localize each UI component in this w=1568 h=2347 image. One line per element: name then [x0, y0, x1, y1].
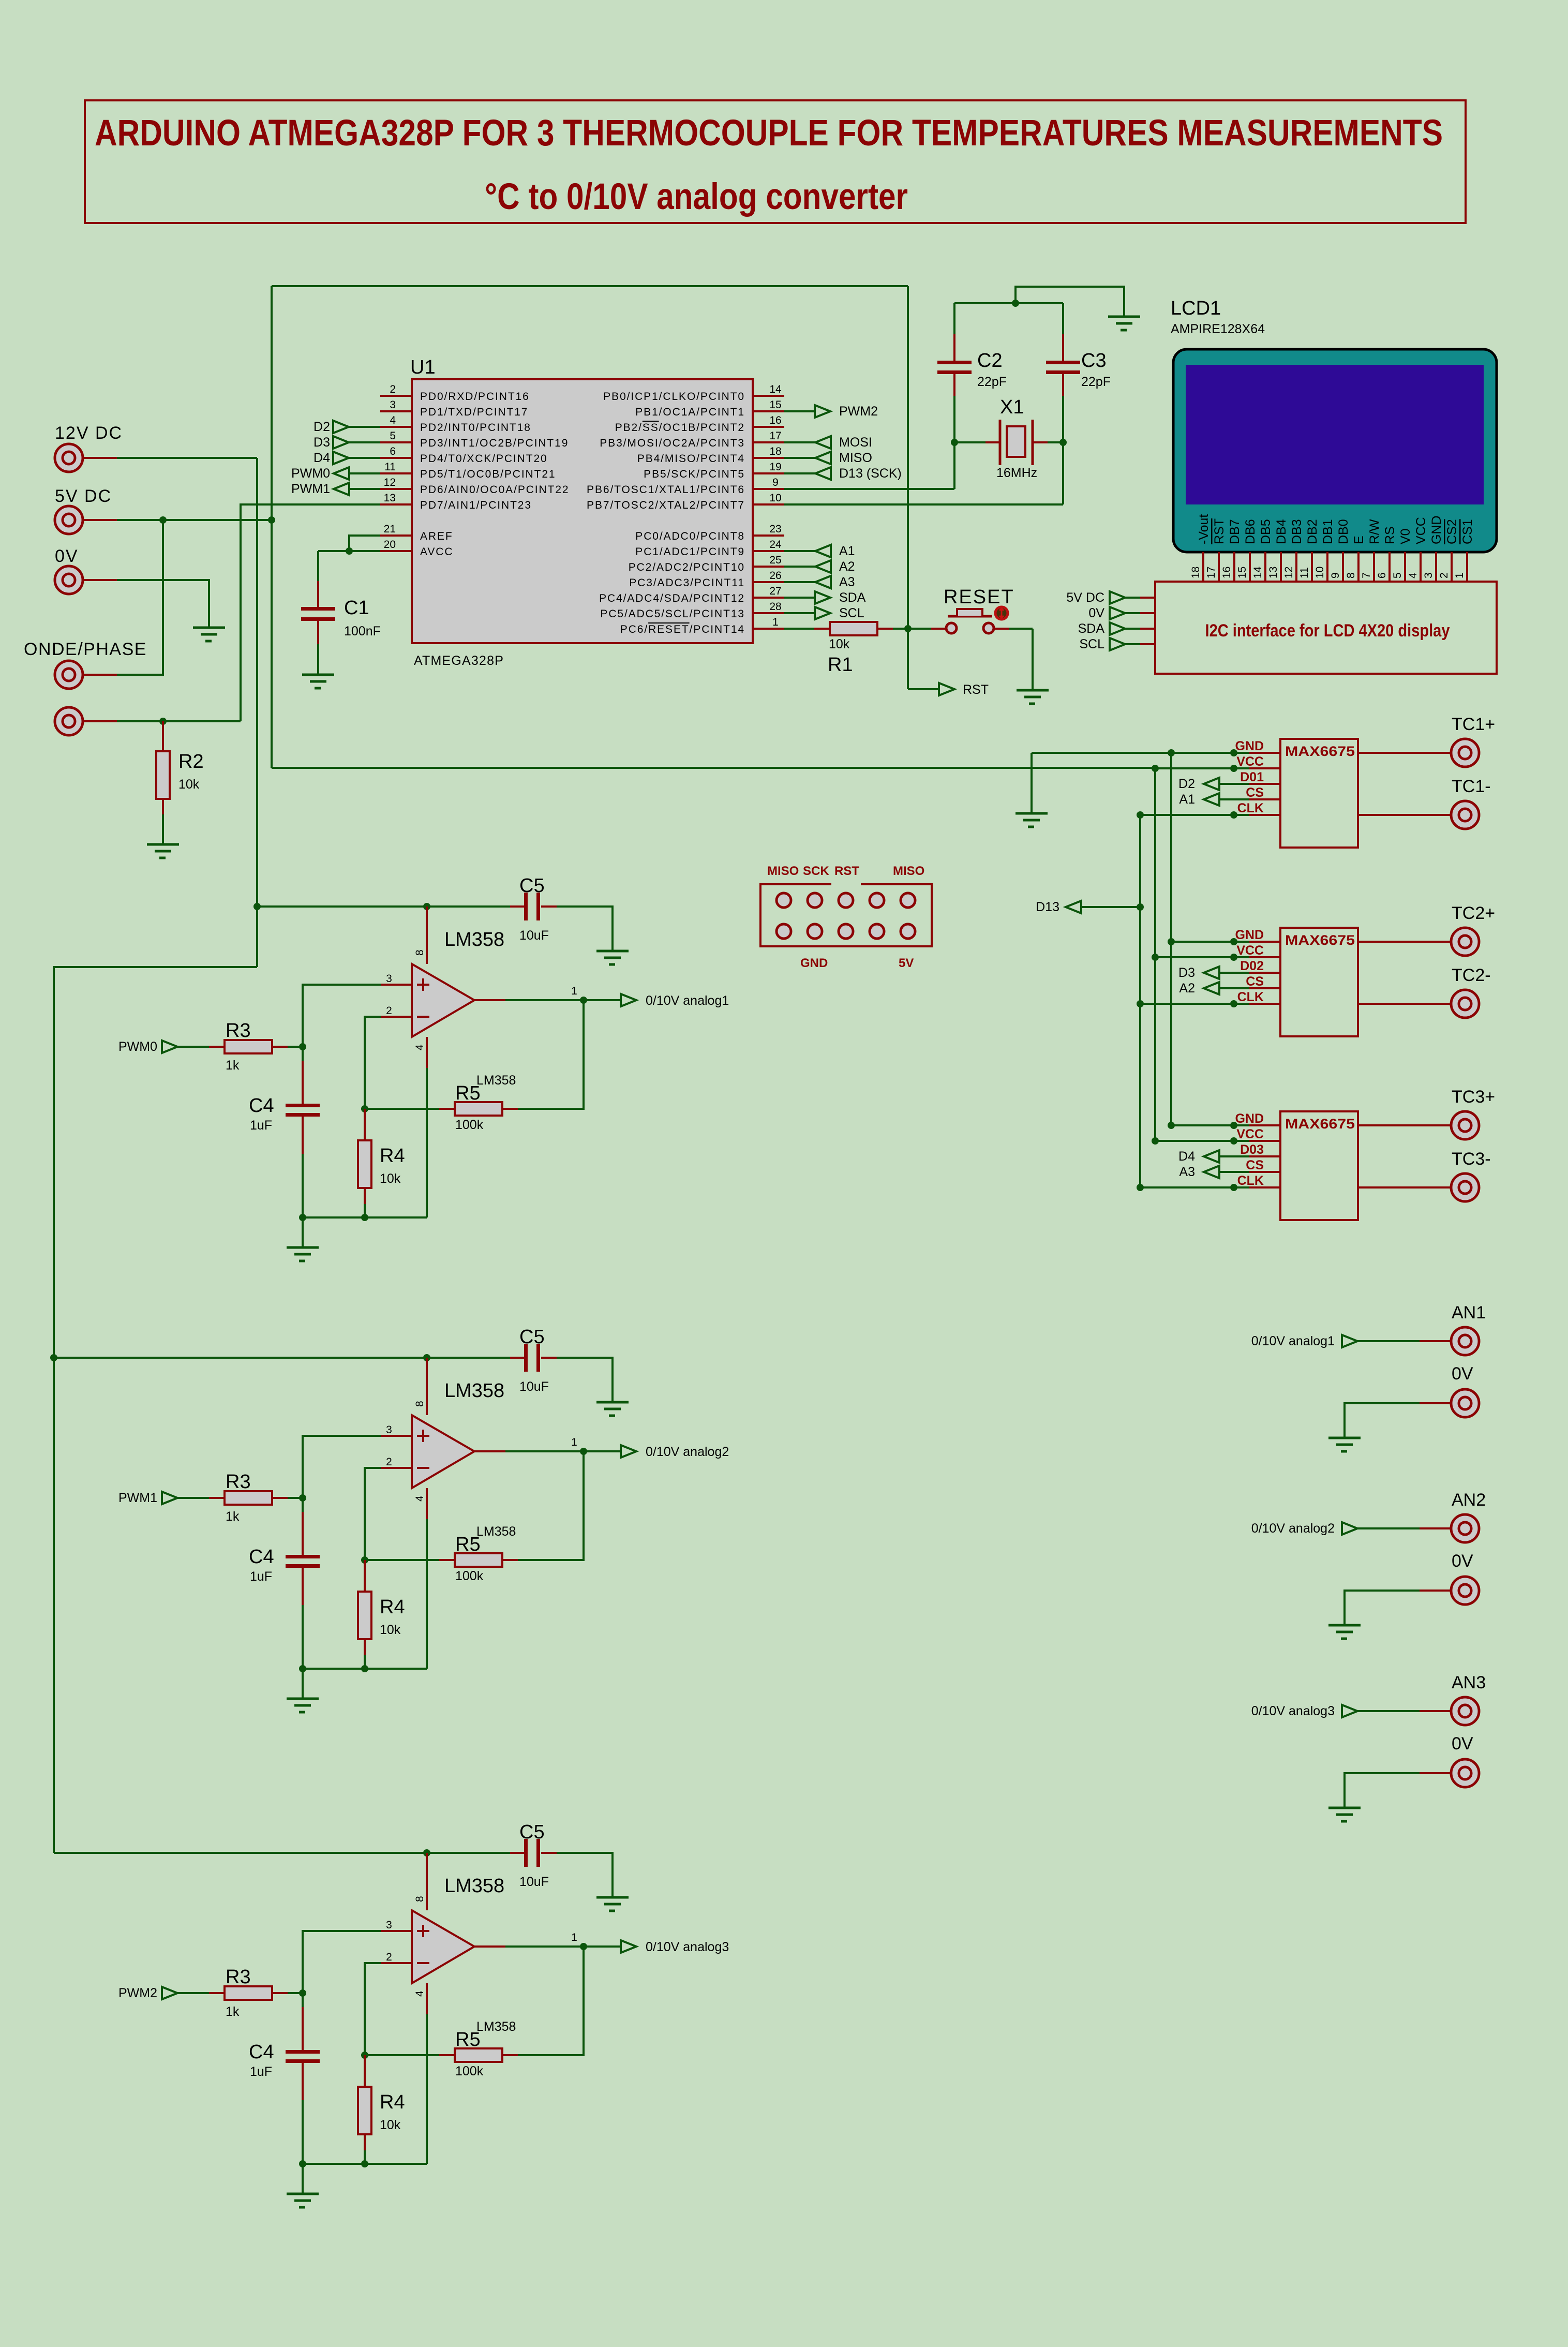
ground crystal [1108, 317, 1140, 330]
pin 17 PB3/MOSI/OC2A/PCINT3 [753, 441, 784, 443]
op-amp2 output wire [474, 1450, 505, 1452]
connector AN1 [1451, 1327, 1479, 1355]
svg-text:TC1+: TC1+ [1452, 715, 1495, 734]
svg-text:AN2: AN2 [1452, 1490, 1486, 1510]
svg-text:20: 20 [384, 539, 396, 551]
svg-text:10k: 10k [380, 1171, 401, 1186]
terminal D3 [1204, 967, 1219, 979]
svg-text:PWM2: PWM2 [839, 404, 878, 419]
svg-text:A3: A3 [1179, 1165, 1195, 1179]
wire VCC rail to MAX1 [1155, 767, 1249, 769]
LCD pin 3 GND [1435, 552, 1437, 582]
resistor R2 [162, 721, 164, 751]
MAX6675-2 pin VCC [1249, 956, 1280, 958]
svg-text:22pF: 22pF [1081, 375, 1111, 389]
svg-text:PC1/ADC1/PCINT9: PC1/ADC1/PCINT9 [635, 546, 745, 558]
svg-text:DB3: DB3 [1290, 519, 1304, 544]
svg-text:1uF: 1uF [250, 1118, 272, 1133]
svg-text:PWM1: PWM1 [291, 482, 330, 496]
svg-text:1uF: 1uF [250, 2064, 272, 2079]
pin 25 PC2/ADC2/PCINT10 [753, 566, 784, 568]
ground C5 (block 2) [596, 1402, 629, 1416]
svg-text:ATMEGA328P: ATMEGA328P [414, 653, 504, 668]
LCD pin 4 VCC [1420, 552, 1422, 582]
wire ONDE/PHASE up to 5V junction [83, 674, 117, 676]
svg-text:VCC: VCC [1236, 943, 1264, 958]
svg-text:24: 24 [769, 539, 782, 551]
svg-text:0/10V analog1: 0/10V analog1 [646, 993, 729, 1008]
pin 9 PB6/TOSC1/XTAL1/PCINT6 [753, 488, 784, 490]
IC U1 ATMEGA328P body [412, 379, 753, 643]
ground 0V [193, 628, 225, 641]
resistor R4 (block 2) [364, 1560, 366, 1592]
MAX6675-1 pin CLK [1249, 814, 1280, 816]
wire C2-C3 top link [954, 302, 1063, 304]
svg-text:AREF: AREF [420, 530, 453, 542]
wire MAX VCC rail [1154, 768, 1156, 1141]
capacitor C4 (block 3) [302, 1993, 304, 2008]
svg-text:0V: 0V [55, 546, 79, 566]
svg-text:PD3/INT1/OC2B/PCINT19: PD3/INT1/OC2B/PCINT19 [420, 437, 569, 449]
svg-text:TC3-: TC3- [1452, 1149, 1491, 1169]
capacitor C4 (block 1) [302, 1047, 304, 1062]
connector J 5V DC [55, 506, 83, 534]
svg-text:R2: R2 [178, 751, 204, 773]
svg-text:PB2/SS/OC1B/PCINT2: PB2/SS/OC1B/PCINT2 [615, 422, 745, 434]
svg-text:2: 2 [390, 383, 396, 395]
svg-text:PWM0: PWM0 [118, 1039, 157, 1054]
MAX6675-3 pin D03 [1249, 1155, 1280, 1157]
svg-text:R/W: R/W [1367, 519, 1382, 544]
svg-text:TC1-: TC1- [1452, 777, 1491, 796]
op-amp1 output wire [474, 999, 505, 1001]
svg-text:X1: X1 [1000, 396, 1024, 418]
ground op-amp3 [302, 2164, 304, 2194]
svg-text:28: 28 [769, 601, 781, 613]
wire 12V rail down to op-amp1 supply [256, 458, 258, 967]
svg-text:10k: 10k [178, 777, 200, 792]
MAX6675-3 pin CS [1249, 1171, 1280, 1173]
svg-text:MAX6675: MAX6675 [1285, 744, 1355, 759]
svg-text:19: 19 [769, 461, 781, 473]
svg-text:A3: A3 [839, 575, 855, 589]
svg-text:4: 4 [414, 1495, 426, 1502]
svg-text:4: 4 [390, 414, 396, 426]
LCD pin 13 DB4 [1280, 552, 1282, 582]
svg-text:R3: R3 [226, 1471, 251, 1493]
junction R5/R4 (block 1) [361, 1105, 368, 1112]
terminal SCL [784, 612, 815, 614]
pin 18 PB4/MISO/PCINT4 [753, 457, 784, 459]
svg-text:PD2/INT0/PCINT18: PD2/INT0/PCINT18 [420, 422, 531, 434]
svg-text:5V DC: 5V DC [1066, 590, 1104, 605]
svg-text:10k: 10k [380, 1623, 401, 1637]
pin 1 PC6/RESET/PCINT14 [753, 628, 784, 630]
svg-text:22pF: 22pF [977, 375, 1007, 389]
terminal 0/10V analog3 [621, 1940, 636, 1953]
svg-text:R3: R3 [226, 1020, 251, 1042]
svg-text:0V: 0V [1452, 1734, 1473, 1754]
svg-text:11: 11 [1298, 567, 1310, 578]
ground C1 [302, 675, 334, 688]
svg-text:RST: RST [1212, 518, 1227, 544]
svg-text:D4: D4 [1178, 1149, 1195, 1164]
IC U2 MAX6675 body [1280, 739, 1358, 848]
svg-text:PWM2: PWM2 [118, 1986, 157, 2000]
wire 5V riser x525 to RESET pullup link [271, 286, 273, 768]
ground R2 [147, 844, 179, 858]
svg-text:100k: 100k [455, 2064, 484, 2078]
MAX6675-1 pin VCC [1249, 767, 1280, 769]
svg-text:CLK: CLK [1237, 1173, 1264, 1188]
svg-text:25: 25 [769, 554, 781, 566]
svg-text:VCC: VCC [1236, 754, 1264, 769]
op-amp2 pin 4 wire [426, 1488, 428, 1519]
ISP header J-ISP outline [760, 884, 932, 946]
svg-text:5V DC: 5V DC [55, 486, 112, 506]
svg-text:A2: A2 [1179, 981, 1195, 996]
svg-text:9: 9 [1330, 572, 1341, 578]
svg-text:0V: 0V [1088, 606, 1104, 620]
connector 0V under AN3 [1451, 1759, 1479, 1787]
op-amp2 pin 3 wire [303, 1436, 381, 1498]
terminal D2 [1204, 778, 1219, 790]
op-amp2 pin 2 wire [365, 1468, 381, 1560]
svg-text:CS: CS [1246, 1158, 1264, 1172]
ground MAX6675 net [1031, 753, 1033, 813]
wire CLK rail to MAX3 [1140, 1186, 1249, 1189]
svg-text:1: 1 [571, 985, 577, 997]
svg-text:13: 13 [1267, 567, 1279, 578]
LCD pin 8 E [1357, 552, 1360, 582]
svg-text:MISO: MISO [893, 864, 924, 878]
resistor R5 (block 1) [365, 1108, 439, 1110]
wire XTAL2 pin10 row [784, 503, 1063, 506]
MAX6675-2 pin CS [1249, 987, 1280, 989]
svg-text:AVCC: AVCC [420, 546, 453, 558]
resistor R5 (block 3) [365, 2054, 439, 2056]
svg-text:PB6/TOSC1/XTAL1/PCINT6: PB6/TOSC1/XTAL1/PCINT6 [587, 484, 745, 496]
svg-text:R5: R5 [455, 1082, 481, 1104]
svg-text:D2: D2 [313, 420, 330, 434]
svg-text:GND: GND [1235, 739, 1264, 753]
button actuator icon [995, 607, 1008, 619]
svg-text:DB6: DB6 [1243, 519, 1258, 544]
junction R3/C4 (block 2) [299, 1494, 306, 1502]
wire AVCC to C1 [318, 550, 380, 552]
svg-text:D03: D03 [1240, 1142, 1264, 1157]
terminal D3 [333, 436, 349, 449]
svg-text:R3: R3 [226, 1966, 251, 1988]
wire MAX GND rail [1032, 752, 1249, 754]
svg-text:8: 8 [414, 1401, 426, 1407]
svg-text:23: 23 [769, 523, 781, 535]
svg-text:4: 4 [414, 1991, 426, 1997]
svg-text:PC4/ADC4/SDA/PCINT12: PC4/ADC4/SDA/PCINT12 [599, 592, 745, 604]
terminal A2 [784, 566, 815, 568]
pin 16 PB2/SS/OC1B/PCINT2 [753, 426, 784, 428]
svg-text:14: 14 [769, 383, 782, 395]
pin 26 PC3/ADC3/PCINT11 [753, 581, 784, 583]
svg-text:3: 3 [386, 973, 392, 985]
svg-text:R5: R5 [455, 2029, 481, 2051]
svg-text:LM358: LM358 [476, 1524, 516, 1539]
svg-text:17: 17 [1205, 567, 1217, 578]
LCD pin 5 V0 [1404, 552, 1406, 582]
svg-text:GND: GND [1429, 515, 1444, 544]
svg-text:PD4/T0/XCK/PCINT20: PD4/T0/XCK/PCINT20 [420, 453, 548, 465]
svg-text:C5: C5 [519, 875, 545, 897]
pin 10 PB7/TOSC2/XTAL2/PCINT7 [753, 503, 784, 506]
wire AVCC down [317, 551, 319, 581]
wire AREF loop [349, 536, 380, 551]
LCD pin 6 RS [1388, 552, 1391, 582]
svg-text:C4: C4 [249, 1546, 274, 1568]
terminal MOSI [784, 441, 815, 443]
ISP header pins [776, 893, 791, 908]
svg-text:VCC: VCC [1414, 517, 1428, 544]
wire op-amp3 supply rail [54, 1852, 510, 1854]
svg-text:TC2+: TC2+ [1452, 903, 1495, 923]
junction 5V at x315 [159, 516, 167, 524]
svg-text:12: 12 [384, 477, 396, 488]
svg-text:D13 (SCK): D13 (SCK) [839, 466, 902, 481]
LCD pin 18 -Vout [1202, 552, 1204, 582]
svg-text:7: 7 [1361, 572, 1372, 578]
svg-text:LM358: LM358 [444, 1875, 504, 1897]
wire GND rail to MAX2 [1171, 941, 1249, 943]
connector TC2- [1451, 990, 1479, 1018]
svg-text:27: 27 [769, 585, 781, 597]
junction R5/R4 (block 3) [361, 2052, 368, 2059]
svg-text:C1: C1 [344, 597, 369, 619]
svg-text:PC2/ADC2/PCINT10: PC2/ADC2/PCINT10 [629, 561, 745, 573]
svg-text:4: 4 [414, 1044, 426, 1050]
svg-text:R1: R1 [828, 654, 853, 676]
LCD pin 16 DB7 [1233, 552, 1235, 582]
pin 5 PD3/INT1/OC2B/PCINT19 [380, 441, 412, 443]
MAX6675-3 pin VCC [1249, 1140, 1280, 1142]
pin 2 PD0/RXD/PCINT16 [380, 395, 412, 397]
wire riser x465 to PD7 row [241, 504, 380, 721]
svg-text:AN3: AN3 [1452, 1673, 1486, 1692]
svg-text:CLK: CLK [1237, 990, 1264, 1004]
capacitor C4 (block 2) [302, 1498, 304, 1513]
svg-text:C4: C4 [249, 2041, 274, 2063]
svg-text:D4: D4 [313, 451, 330, 465]
svg-text:3: 3 [386, 1919, 392, 1931]
wire phase-sense to PD7 riser [83, 720, 117, 722]
svg-text:CS2: CS2 [1445, 519, 1459, 544]
capacitor C5 (block 2) [510, 1357, 526, 1359]
wire GND rail to MAX1 [1168, 749, 1175, 756]
MAX6675-1 pin D01 [1249, 783, 1280, 785]
svg-text:D3: D3 [1178, 965, 1195, 980]
svg-text:A2: A2 [839, 559, 855, 574]
svg-text:DB5: DB5 [1259, 519, 1273, 544]
capacitor C5 (block 1) [510, 905, 526, 908]
svg-text:PC0/ADC0/PCINT8: PC0/ADC0/PCINT8 [635, 530, 745, 542]
ground op-amp2 [302, 1669, 304, 1699]
svg-text:10uF: 10uF [519, 928, 549, 943]
connector J 0V [55, 566, 83, 594]
LCD pin 15 DB6 [1249, 552, 1251, 582]
connector J phase-sense [55, 707, 83, 735]
junction 5V at x525 [268, 516, 275, 524]
svg-text:C2: C2 [977, 350, 1003, 372]
svg-text:100nF: 100nF [344, 624, 381, 638]
svg-text:15: 15 [1236, 567, 1248, 578]
svg-text:°C to 0/10V analog converter: °C to 0/10V analog converter [485, 176, 908, 217]
ground (AN3) [1328, 1808, 1361, 1821]
svg-text:SCL: SCL [839, 606, 864, 620]
svg-text:17: 17 [769, 430, 781, 442]
crystal X1 [954, 441, 985, 443]
svg-text:AMPIRE128X64: AMPIRE128X64 [1171, 322, 1265, 336]
capacitor C5 (block 3) [510, 1852, 526, 1854]
pin 4 PD2/INT0/PCINT18 [380, 426, 412, 428]
svg-text:8: 8 [414, 1896, 426, 1902]
svg-text:V0: V0 [1398, 528, 1413, 544]
svg-text:DB1: DB1 [1321, 519, 1335, 544]
resistor R3 (block 1) [209, 1046, 225, 1048]
op-amp U1 LM358 [426, 907, 428, 964]
wire op-amp2 bottom ground bus [303, 1668, 427, 1670]
terminal MISO [784, 457, 815, 459]
svg-text:MOSI: MOSI [839, 435, 872, 450]
terminal A3 [1204, 1166, 1219, 1178]
svg-text:6: 6 [1376, 572, 1388, 578]
svg-text:MAX6675: MAX6675 [1285, 1116, 1355, 1132]
op-amp1 pin 2 wire [365, 1017, 381, 1109]
svg-text:LM358: LM358 [476, 1073, 516, 1088]
pin 11 PD5/T1/OC0B/PCINT21 [380, 472, 412, 474]
svg-text:PB7/TOSC2/XTAL2/PCINT7: PB7/TOSC2/XTAL2/PCINT7 [587, 499, 745, 511]
wire VCC rail to MAX2 [1155, 956, 1249, 958]
svg-text:1: 1 [1454, 572, 1466, 578]
pin 3 PD1/TXD/PCINT17 [380, 410, 412, 412]
svg-text:A1: A1 [839, 544, 855, 558]
terminal PWM2 [784, 410, 815, 412]
svg-text:MAX6675: MAX6675 [1285, 932, 1355, 948]
junction crystal left [951, 439, 958, 446]
ground (AN2) [1328, 1625, 1361, 1639]
svg-text:2: 2 [1438, 572, 1450, 578]
junction R5/R4 (block 2) [361, 1556, 368, 1564]
svg-text:14: 14 [1252, 566, 1264, 578]
wire op-amp2 supply rail [54, 1357, 510, 1359]
svg-text:12: 12 [1283, 567, 1295, 578]
junction 12V op-amp2 branch [50, 1354, 57, 1361]
resistor R3 (block 2) [209, 1497, 225, 1499]
junction AREF/AVCC [346, 547, 353, 555]
ground C5 (block 3) [596, 1897, 629, 1911]
wire CLK rail to MAX2 [1140, 1003, 1249, 1005]
svg-text:PWM1: PWM1 [118, 1491, 157, 1505]
pin 19 PB5/SCK/PCINT5 [753, 472, 784, 474]
op-amp1 pin 4 wire [426, 1037, 428, 1068]
svg-text:2: 2 [386, 1005, 392, 1017]
svg-text:3: 3 [1423, 572, 1435, 578]
connector TC3+ [1451, 1111, 1479, 1139]
svg-text:1: 1 [571, 1436, 577, 1448]
terminal D2 [333, 421, 349, 433]
svg-text:GND: GND [800, 956, 828, 970]
terminal D13 (SCK) [784, 472, 815, 474]
svg-text:PB0/ICP1/CLKO/PCINT0: PB0/ICP1/CLKO/PCINT0 [603, 391, 745, 403]
svg-text:16: 16 [1221, 567, 1233, 578]
LCD pin 9 DB0 [1342, 552, 1344, 582]
pin 21 AREF [380, 534, 412, 537]
IC U4 MAX6675 body [1280, 1111, 1358, 1220]
capacitor C2 [953, 303, 955, 335]
LCD1 screen [1186, 365, 1484, 504]
ground C5 (block 1) [596, 951, 629, 964]
terminal SDA [784, 597, 815, 599]
svg-text:0/10V analog1: 0/10V analog1 [1251, 1334, 1335, 1348]
svg-text:LM358: LM358 [444, 1380, 504, 1402]
svg-text:4: 4 [1407, 572, 1419, 578]
svg-text:5V: 5V [899, 956, 914, 970]
MAX6675-2 pin GND [1249, 941, 1280, 943]
svg-text:5: 5 [1392, 572, 1403, 578]
connector AN3 [1451, 1697, 1479, 1725]
svg-text:15: 15 [769, 399, 781, 411]
wire 0V to ground (AN3) [1420, 1772, 1451, 1774]
junction 12V op-amp1 branch [253, 903, 261, 910]
connector 0V under AN2 [1451, 1577, 1479, 1605]
op-amp3 pin 2 wire [365, 1963, 381, 2055]
pin 12 PD6/AIN0/OC0A/PCINT22 [380, 488, 412, 490]
svg-text:PB5/SCK/PCINT5: PB5/SCK/PCINT5 [644, 468, 745, 480]
svg-text:D02: D02 [1240, 959, 1264, 973]
terminal 0/10V analog2 [621, 1445, 636, 1458]
resistor R4 (block 1) [364, 1109, 366, 1140]
svg-text:R4: R4 [380, 2091, 405, 2113]
terminal A2 [1204, 982, 1219, 994]
svg-text:MISO: MISO [839, 451, 872, 465]
resistor R5 (block 2) [365, 1559, 439, 1561]
connector 0V under AN1 [1451, 1389, 1479, 1417]
svg-text:0/10V analog3: 0/10V analog3 [646, 1940, 729, 1954]
svg-text:1: 1 [571, 1932, 577, 1943]
svg-text:6: 6 [390, 445, 396, 457]
MAX6675-2 pin D02 [1249, 972, 1280, 974]
svg-text:1k: 1k [226, 2004, 240, 2019]
LCD pin 17 RST [1218, 552, 1220, 582]
terminal D4 [1204, 1150, 1219, 1163]
op-amp3 pin 3 wire [303, 1931, 381, 1993]
svg-text:D13: D13 [1036, 900, 1059, 914]
svg-text:5: 5 [390, 430, 396, 442]
svg-text:RESET: RESET [944, 586, 1014, 608]
svg-text:18: 18 [1190, 567, 1202, 578]
svg-text:10k: 10k [380, 2118, 401, 2132]
LCD pin 10 DB1 [1326, 552, 1328, 582]
capacitor C1 [317, 581, 319, 608]
pin 20 AVCC [380, 550, 412, 552]
wire op-amp1 bottom ground bus [303, 1216, 427, 1219]
LCD pin 7 R/W [1373, 552, 1375, 582]
svg-text:SDA: SDA [1078, 621, 1105, 636]
terminal A1 [1204, 793, 1219, 806]
junction R2 top [159, 718, 167, 725]
connector J ONDE/PHASE [55, 661, 83, 689]
pin 14 PB0/ICP1/CLKO/PCINT0 [753, 395, 784, 397]
svg-text:D2: D2 [1178, 777, 1195, 791]
wire 5V link to MAX VCC rail [272, 767, 1155, 769]
svg-text:TC2-: TC2- [1452, 965, 1491, 985]
